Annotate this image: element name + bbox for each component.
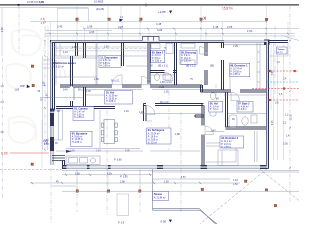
bath divider x226.5 [225,92,227,127]
svg-text:1,50: 1,50 [94,78,99,81]
top exterior wall [50,41,288,169]
svg-text:+2,85: +2,85 [158,10,166,14]
svg-text:H: 2,85 m: H: 2,85 m [72,142,82,144]
svg-text:A: 3,4 m²: A: 3,4 m² [210,106,220,109]
tiny blue texts above top line [27,0,104,11]
svg-text:P: 19,9 m: P: 19,9 m [148,136,158,138]
07. Baie 2 [237,102,253,113]
red utility squares [269,70,296,101]
svg-text:1,50: 1,50 [164,90,169,93]
porch lines left [2,8,288,216]
svg-text:1,50: 1,50 [104,46,109,49]
svg-text:1,63: 1,63 [233,179,238,182]
platform right wall [70,56,72,107]
svg-text:6,00: 6,00 [1,152,8,156]
svg-text:3,65: 3,65 [272,70,274,75]
left exterior wall [50,41,52,111]
svg-text:A: 4,6 m²: A: 4,6 m² [152,54,162,57]
svg-text:10,4605: 10,4605 [94,0,104,4]
svg-text:90 x 2,1: 90 x 2,1 [160,101,169,104]
dimension tick marks top [44,21,289,35]
svg-text:1,2: 1,2 [120,16,124,19]
interior walls [56,42,266,165]
svg-text:(85): (85) [210,65,214,67]
left margin stacked texts [1,86,54,148]
threshold dark stripes bottom-left [52,156,65,161]
svg-text:1,50: 1,50 [233,183,238,186]
corridor bottom wall right part [144,102,204,104]
door opening gaps [70,70,240,135]
svg-text:2,98: 2,98 [2,27,4,32]
svg-text:A: 21,84 m²: A: 21,84 m² [154,196,166,199]
dimension texts row top [57,22,253,34]
bottom dimension lines [0,151,299,191]
svg-text:P: 12,65 m: P: 12,65 m [72,139,83,141]
chimney block on wall [143,37,160,42]
svg-text:(24,25): (24,25) [96,7,104,11]
svg-text:04. Bucatarie: 04. Bucatarie [72,132,88,135]
svg-text:08. Dressing: 08. Dressing [181,51,196,54]
svg-text:1,21: 1,21 [44,143,49,145]
svg-text:P: 13,6 m: P: 13,6 m [221,144,231,146]
10. Hol [105,91,133,105]
svg-text:3,05: 3,05 [283,142,288,145]
top wall window (bedroom) [224,41,264,45]
red dashed utility lines right [252,71,299,100]
column markers row top (brown hatched squares) [31,18,277,207]
vertical wall living room left top [143,103,145,121]
svg-text:1,50 x 2,10: 1,50 x 2,10 [160,81,172,84]
05. Camara [73,107,94,121]
svg-text:09. Baie 1: 09. Baie 1 [152,51,164,54]
svg-text:0,40: 0,40 [63,88,68,91]
08. Dressing [180,50,197,64]
vertical x206 with door gap [204,42,206,56]
svg-text:A: 10,59 m²: A: 10,59 m² [106,95,118,98]
Terasa top-right [277,47,288,54]
interior vertical x122.5 [121,42,123,66]
svg-text:P: 0,9: P: 0,9 [118,221,125,224]
svg-text:2,98: 2,98 [87,24,93,28]
door leaf platform [73,88,75,101]
jog vertical [200,85,202,92]
svg-text:P: 8,8 m: P: 8,8 m [238,109,247,111]
svg-text:1,50: 1,50 [47,93,49,98]
svg-text:3,47: 3,47 [211,129,216,132]
svg-text:A: 2,9: A: 2,9 [277,51,283,54]
interior vertical x149 [147,42,149,84]
top dimension double line [0,5,299,6]
vertical x222.5 [221,42,223,48]
ticks on dimension lines bottom [31,174,201,185]
svg-text:P: 10,1 m: P: 10,1 m [181,58,191,60]
column markers row bottom / scattered [76,190,78,192]
living/bedroom divider x203 [201,103,203,165]
05. Sufragerie [147,128,172,144]
07. Dormitor 1 [230,63,250,76]
svg-text:0,45: 0,45 [57,24,63,28]
baie 1 fixtures [151,44,195,81]
diagonal top right [281,35,299,40]
extension verticals above wall [51,8,289,77]
svg-text:1,20: 1,20 [124,110,129,113]
svg-text:15,87m: 15,87m [222,6,233,10]
left wall lower glazing + posts [51,110,54,165]
watermark faint pattern left side [6,29,45,143]
svg-text:Terasa: Terasa [154,192,163,196]
svg-text:(85 x 2,1): (85 x 2,1) [158,65,168,67]
svg-text:A: 4,61 m²: A: 4,61 m² [100,59,111,62]
wall y128 bath bottom [226,126,267,128]
rotated dim texts left [2,27,293,125]
bottom exterior wall thin glazing lines [62,165,269,167]
wall hatch fills (light) [51,41,268,168]
wall stub hol/sufragerie [195,114,204,116]
svg-text:1,46: 1,46 [139,111,144,114]
svg-text:0,00: 0,00 [161,220,167,224]
interior vertical x84.7 [83,42,85,58]
vertical x175.3 [173,42,175,84]
svg-text:H: 2,85 m: H: 2,85 m [106,101,116,103]
svg-text:H: 2,85 m: H: 2,85 m [74,117,84,119]
left dim column ticks [44,40,291,168]
svg-text:2,05: 2,05 [86,90,91,93]
svg-text:A: 22,04 m²: A: 22,04 m² [148,132,160,135]
corridor bottom wall left part [56,106,115,108]
wall y71.5 [150,70,176,72]
svg-text:H: 2,85 m: H: 2,85 m [221,147,231,149]
svg-text:1,88: 1,88 [175,133,180,136]
svg-text:A: 6,35 m²: A: 6,35 m² [53,66,64,69]
svg-text:1,50: 1,50 [44,140,49,142]
svg-text:Terasa: Terasa [277,49,285,51]
svg-text:4,05: 4,05 [272,120,274,125]
right exterior wall [266,41,268,169]
svg-text:4,05: 4,05 [39,0,45,4]
kitchen counter bottom [66,156,100,165]
svg-text:4,57: 4,57 [181,176,186,179]
svg-text:A: 5,9 m²: A: 5,9 m² [181,54,191,57]
svg-text:S: 3,5 m²: S: 3,5 m² [148,141,158,144]
svg-text:05. Camara: 05. Camara [74,108,88,111]
svg-text:2,05: 2,05 [227,25,233,29]
svg-text:P: 8,8 m: P: 8,8 m [152,58,161,60]
svg-text:11. Depozitare: 11. Depozitare [100,55,118,59]
corner pillar block [264,40,270,46]
09. Baie 1 [151,50,165,63]
svg-text:P: 14,55 m: P: 14,55 m [230,71,241,73]
thin interior detail lines [40,42,266,162]
diamond marker on top line [17,4,20,6]
svg-text:+2,85: +2,85 [158,86,165,89]
svg-text:P: 7,6 m: P: 7,6 m [210,109,219,111]
06. Baie 2 box left [209,102,223,113]
bottom wall solid segments [62,165,269,169]
svg-text:H: 2,85 m: H: 2,85 m [148,139,158,141]
svg-text:H: 2,85 m: H: 2,85 m [181,61,191,63]
red stacked text left [41,17,45,25]
light dimension lines top area [0,8,299,36]
02. Dormitor 2 [220,136,244,149]
svg-text:P: 18,95 m: P: 18,95 m [106,98,117,100]
svg-text:06. Hol: 06. Hol [210,103,219,106]
svg-text:Platforma acces: Platforma acces [53,61,76,65]
svg-text:12,05: 12,05 [291,114,293,120]
svg-text:4,48: 4,48 [156,22,162,26]
door size labels row [150,48,214,68]
svg-text:A: 9,85 m²: A: 9,85 m² [72,135,83,138]
svg-text:10. Hol: 10. Hol [106,91,115,95]
svg-text:P: 6,35 m: P: 6,35 m [74,114,84,116]
svg-text:1,21: 1,21 [63,51,68,54]
svg-text:1,86: 1,86 [15,89,20,91]
svg-text:90 x 2,1: 90 x 2,1 [78,88,87,91]
svg-text:A: 2,47 m²: A: 2,47 m² [74,111,85,114]
svg-text:WP: WP [20,84,25,88]
diagonal dashed lines bottom right [200,169,299,225]
svg-text:02. Dormitor 2: 02. Dormitor 2 [221,137,238,140]
svg-text:90 x 2,1: 90 x 2,1 [111,79,120,82]
svg-text:1,50: 1,50 [247,29,253,33]
svg-text:P: 0,90: P: 0,90 [114,158,122,161]
corridor top wall left part [60,84,202,86]
svg-text:04. Sufragerie: 04. Sufragerie [148,129,165,132]
svg-text:(85 x 2,1): (85 x 2,1) [186,65,196,67]
svg-text:2,05: 2,05 [232,45,238,48]
svg-text:H: 2,85 m: H: 2,85 m [230,74,240,76]
svg-text:A: 11,2 m²: A: 11,2 m² [221,140,232,143]
svg-text:1,48: 1,48 [213,25,219,29]
Terasa bottom [153,192,169,201]
corridor top wall right part [201,89,267,91]
bed dormitor 2 [218,150,238,166]
scattered small blue texts [43,45,290,224]
svg-text:P: 8,85 m: P: 8,85 m [100,63,110,65]
svg-text:08. Dormitor 1: 08. Dormitor 1 [230,64,248,68]
tick on top line [145,3,147,6]
11. Depozitare [99,55,121,67]
svg-text:1,06: 1,06 [72,46,77,49]
interior vertical x70.8 [75,43,77,57]
terrace outline bottom [153,169,218,224]
svg-text:H: 2,85 m: H: 2,85 m [100,66,110,68]
structural grid verticals light [42,6,284,191]
04. Bucatarie [71,131,93,146]
door swing arcs [112,47,240,115]
svg-text:A: 4,66 m²: A: 4,66 m² [238,106,249,109]
bathroom fixtures [210,93,257,127]
dormitor2 door arc [205,126,214,135]
table with chairs [101,120,117,144]
svg-text:A: 12,74 m²: A: 12,74 m² [230,68,242,71]
svg-text:H: 2,85 m: H: 2,85 m [152,61,162,63]
svg-text:07. Baie 2: 07. Baie 2 [238,103,250,106]
red small mark x206 [204,17,207,20]
svg-text:P: 0,90: P: 0,90 [120,176,128,179]
